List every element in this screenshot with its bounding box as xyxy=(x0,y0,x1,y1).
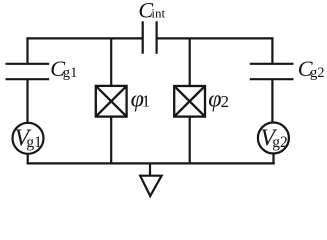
wire top-right segment with corner down to Cg2 xyxy=(157,38,273,63)
svg-text:g2: g2 xyxy=(310,65,325,81)
wire Vg2 to bottom xyxy=(272,153,274,164)
svg-text:g2: g2 xyxy=(272,134,288,151)
capacitor Cg1 xyxy=(6,64,50,79)
svg-text:φ: φ xyxy=(208,86,221,112)
voltage source Vg1 xyxy=(13,123,44,154)
wire JJ1 to bottom xyxy=(110,117,112,164)
capacitor Cint xyxy=(143,21,157,54)
svg-text:2: 2 xyxy=(221,92,229,111)
wire Vg1 to bottom xyxy=(27,154,29,165)
wire JJ2 to bottom xyxy=(189,117,191,164)
svg-text:int: int xyxy=(151,6,165,21)
Josephson junction phi1 xyxy=(96,86,127,117)
bottom wire xyxy=(27,162,275,164)
wire top wire to JJ1 xyxy=(110,38,112,86)
Josephson junction phi2 xyxy=(174,86,205,117)
svg-text:1: 1 xyxy=(142,92,150,111)
wire Cg1 to Vg1 xyxy=(26,79,28,123)
voltage source Vg2 xyxy=(258,123,289,154)
ground xyxy=(140,163,161,196)
wire top-left segment with corner down to Cg1 xyxy=(28,38,143,63)
wire top wire to JJ2 xyxy=(189,38,191,86)
svg-text:g1: g1 xyxy=(26,134,42,151)
wire Cg2 to Vg2 xyxy=(271,79,273,123)
capacitor Cg2 xyxy=(250,64,294,79)
svg-text:g1: g1 xyxy=(63,65,78,81)
